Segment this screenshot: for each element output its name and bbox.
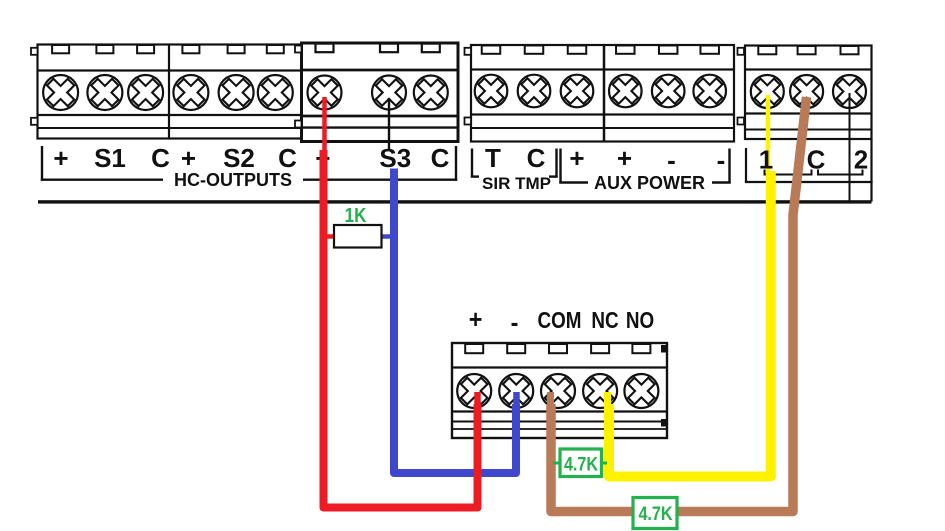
relay screw terminal NC [580,371,620,411]
resistor 1K between red and blue wires [326,225,391,248]
screw terminal B1 [304,72,344,112]
svg-text:1: 1 [759,145,773,175]
terminal block C: SIR TMP / AUX POWER module outline [471,45,734,142]
screw terminal C5 [649,72,688,111]
relay screw terminal - [496,371,536,411]
screw terminal B2 [369,72,409,112]
svg-text:AUX POWER: AUX POWER [594,173,705,193]
svg-text:S2: S2 [223,143,255,173]
svg-text:SIR TMP: SIR TMP [482,174,551,193]
svg-text:COM: COM [538,308,582,333]
HC-OUTPUTS label bracket [41,146,457,181]
relay screw terminal NO [621,371,661,411]
screw terminal C1 [472,72,511,111]
svg-text:-: - [667,145,676,175]
block A screw-row and strip lines [38,71,303,129]
block B screw-row and strip lines [302,70,459,128]
screw terminal C3 [558,72,597,111]
svg-text:-: - [511,309,519,337]
screw terminal A6 [255,72,297,114]
screw terminal C6 [690,72,729,111]
block C screw-row and strip lines [471,70,734,129]
relay screw terminal COM [538,371,578,411]
terminal block A: HC-OUTPUTS S1/S2 module outline [38,45,303,139]
svg-text:C: C [527,143,546,173]
block C top notches [482,46,719,54]
svg-text:NC: NC [591,308,618,333]
svg-text:-: - [717,145,726,175]
screw terminal A2 [84,72,126,114]
screw terminal A1 [40,72,82,114]
relay screw terminal + [454,371,494,411]
svg-text:+: + [53,143,68,173]
relay block screw-row and strip lines [452,368,667,430]
block B top notches [316,44,440,53]
svg-text:C: C [807,145,826,175]
wire yellow: zone 1 to relay NC [608,171,771,477]
wire blue: S3 to relay - [394,169,517,474]
svg-text:C: C [431,143,450,173]
svg-text:HC-OUTPUTS: HC-OUTPUTS [174,170,292,190]
resistor 4.7K on brown wire [633,498,677,529]
svg-text:S1: S1 [94,143,126,173]
svg-text:+: + [617,143,632,173]
AUX POWER label bracket [559,149,730,184]
svg-text:+: + [469,306,483,334]
block A side tabs [31,48,38,125]
block C side tabs [465,48,472,125]
block D side tabs [738,48,745,125]
block D screw-row and strip lines [745,70,872,130]
svg-text:+: + [181,143,196,173]
lead from S3 screw [388,98,390,151]
screw terminal D1 [748,72,787,111]
svg-text:4.7K: 4.7K [638,503,672,525]
block B side tabs [295,46,302,128]
wire brown: zone C to relay COM [551,97,807,512]
screw terminal A5 [215,72,257,114]
relay block top notches [465,344,650,353]
svg-text:1K: 1K [345,204,367,227]
block A section divider [168,45,170,139]
svg-text:4.7K: 4.7K [564,453,598,475]
screw terminal D2 [787,72,826,111]
wire red: S3 module + to relay + [324,97,478,508]
zone label box (block D) [745,139,873,202]
screw terminal A3 [125,72,167,114]
screw terminal C4 [606,72,645,111]
lead from zone 2 screw [849,93,851,201]
terminal block B: HC-OUTPUTS S3 module outline (bold) [302,43,459,142]
terminal block D: zone terminals 1/C/2 module outline [745,46,872,140]
relay block corner squares [661,345,666,427]
SIR TMP label bracket [471,149,558,178]
svg-text:C: C [278,143,297,173]
screw terminal B3 [411,72,451,112]
board edge line [38,200,872,203]
svg-text:C: C [151,143,170,173]
svg-text:+: + [569,143,584,173]
screw terminal A4 [170,72,212,114]
block D top notches [758,46,858,54]
block A top notches [52,45,284,53]
zone C-2 pairing bracket [817,170,864,175]
block C section divider [603,45,606,142]
screw terminal C2 [515,72,554,111]
screw terminal D3 [830,72,869,111]
svg-text:NO: NO [626,308,654,333]
zone 1-C pairing bracket [764,170,813,175]
svg-text:T: T [485,143,501,173]
yellow lead stub from zone 1 screw [766,95,771,172]
relay terminal block outline [452,343,667,438]
resistor 4.7K between brown and yellow wires [553,449,607,477]
svg-text:2: 2 [854,145,868,175]
